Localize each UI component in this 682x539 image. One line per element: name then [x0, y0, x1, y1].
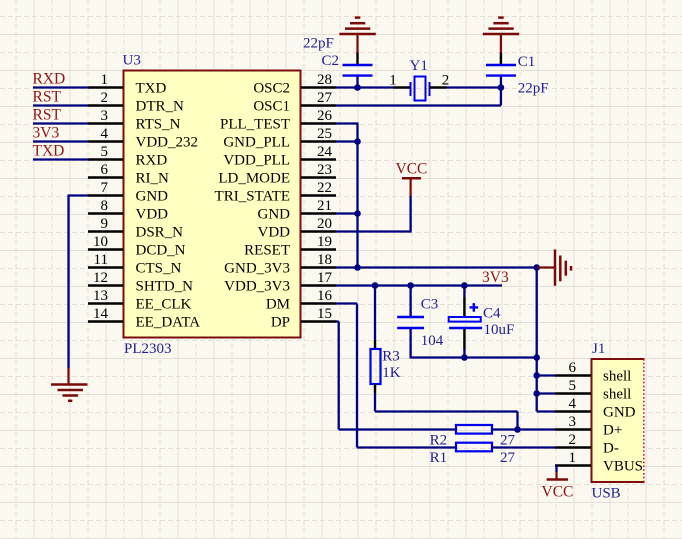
wire J1 pin5 nub: [537, 392, 555, 394]
wire pin18 GND_3V3: [336, 266, 537, 268]
wire net RST to pin 2: [33, 104, 88, 106]
svg-text:22: 22: [317, 180, 332, 196]
ground symbol top-right bars: [483, 33, 519, 36]
svg-text:27: 27: [317, 90, 333, 106]
U3 pin 3 stub: [88, 122, 123, 124]
svg-text:C4: C4: [483, 305, 501, 321]
U3 pin 17 stub: [301, 284, 336, 286]
U3 pin 9 stub: [88, 230, 123, 232]
J1 pin 6 stub: [555, 374, 591, 376]
wire pin21 nub: [336, 212, 358, 214]
wire C4 bottom stem: [463, 329, 465, 349]
wire pin16 DM route: [336, 302, 357, 304]
svg-text:SHTD_N: SHTD_N: [136, 278, 194, 294]
svg-text:J1: J1: [592, 341, 605, 357]
ground symbol bottom-left bars: [51, 383, 88, 386]
ground symbol bottom-left stem: [67, 368, 69, 385]
ground symbol right stem: [537, 266, 555, 268]
wire net TXD to pin 5: [33, 158, 88, 160]
ground symbol right bars: [554, 250, 557, 286]
wire crystal to C1: [447, 86, 501, 88]
U3 pin 6 stub: [88, 176, 123, 178]
svg-text:OSC2: OSC2: [253, 80, 290, 96]
node junction pin18/rail: [354, 264, 361, 271]
svg-text:RTS_N: RTS_N: [136, 116, 181, 132]
capacitor C1 plates: [486, 64, 516, 66]
U3 pin 16 stub: [301, 302, 336, 304]
svg-text:GND_PLL: GND_PLL: [223, 134, 290, 150]
svg-text:C3: C3: [421, 297, 439, 313]
svg-text:10uF: 10uF: [484, 322, 515, 338]
svg-text:19: 19: [317, 234, 332, 250]
svg-text:6: 6: [101, 162, 109, 178]
svg-text:8: 8: [101, 198, 109, 214]
IC U3 PL2303 body: [124, 71, 301, 338]
U3 pin 25 stub: [301, 140, 336, 142]
svg-text:RST: RST: [33, 107, 62, 124]
svg-text:22pF: 22pF: [303, 36, 334, 52]
U3 pin 15 stub: [301, 320, 336, 322]
svg-text:LD_MODE: LD_MODE: [218, 170, 290, 186]
node junction C4/rail: [461, 354, 468, 361]
svg-text:TXD: TXD: [33, 143, 65, 160]
crystal Y1 pin2 stub: [430, 86, 448, 88]
svg-text:26: 26: [317, 108, 333, 124]
wire C4 top stem: [463, 286, 465, 298]
node junction rail/x536: [533, 354, 540, 361]
svg-text:PL2303: PL2303: [124, 341, 172, 357]
svg-text:6: 6: [569, 360, 577, 376]
svg-text:EE_DATA: EE_DATA: [136, 314, 201, 330]
wire C2 to pin28 node: [356, 77, 358, 89]
U3 pin 11 stub: [88, 266, 123, 268]
resistor R3 bottom pin: [374, 384, 376, 393]
U3 pin 22 stub: [301, 194, 336, 196]
svg-text:VDD_3V3: VDD_3V3: [224, 278, 290, 294]
svg-text:14: 14: [93, 306, 109, 322]
U3 pin 12 stub: [88, 284, 123, 286]
svg-text:4: 4: [101, 126, 109, 142]
svg-text:13: 13: [93, 288, 108, 304]
svg-text:shell: shell: [603, 368, 631, 384]
capacitor C4 bottom plate: [449, 327, 482, 330]
svg-text:1: 1: [569, 450, 577, 466]
svg-text:VDD: VDD: [136, 206, 169, 222]
wire R1 to J1 pin2: [492, 446, 555, 448]
node junction C4 top: [461, 282, 468, 289]
wire rail vertical x357: [356, 124, 358, 268]
svg-text:GND_3V3: GND_3V3: [224, 260, 290, 276]
U3 pin 19 stub: [301, 248, 336, 250]
wire VCC to pin20: [409, 196, 411, 232]
svg-text:GND: GND: [258, 206, 291, 222]
U3 pin 28 stub: [301, 86, 336, 88]
svg-text:10: 10: [93, 234, 108, 250]
wire R3 top: [374, 286, 376, 341]
svg-text:R2: R2: [430, 433, 448, 449]
svg-text:5: 5: [569, 378, 577, 394]
resistor R1 body: [456, 443, 492, 452]
wire pin27 OSC1: [336, 104, 501, 106]
wire pin28 to crystal: [336, 86, 394, 88]
wire ground rail C3/C4: [409, 357, 411, 359]
U3 pin 7 stub: [88, 194, 123, 196]
ground symbol top-left stem: [356, 34, 358, 53]
wire net RXD to pin 1: [33, 86, 88, 88]
U3 pin 5 stub: [88, 158, 123, 160]
wire x536 vertical: [536, 268, 538, 412]
svg-text:22pF: 22pF: [518, 80, 549, 96]
wire pin7 horizontal: [69, 194, 89, 196]
svg-text:7: 7: [101, 180, 109, 196]
svg-text:104: 104: [421, 333, 444, 349]
node junction R3 top: [372, 282, 379, 289]
connector J1 body: [592, 359, 644, 482]
U3 pin 27 stub: [301, 104, 336, 106]
resistor R3 body: [371, 349, 381, 384]
power VCC top stem: [410, 178, 412, 196]
capacitor C1 top pin: [500, 52, 502, 64]
svg-text:TXD: TXD: [136, 80, 167, 96]
svg-text:3: 3: [569, 414, 577, 430]
J1 pin 5 stub: [555, 392, 591, 394]
svg-text:OSC1: OSC1: [253, 98, 290, 114]
wire pin25 nub: [336, 140, 358, 142]
wire J1 pin1 to VCC: [555, 466, 557, 473]
U3 pin 8 stub: [88, 212, 123, 214]
svg-text:RST: RST: [33, 89, 62, 106]
svg-text:23: 23: [317, 162, 332, 178]
U3 pin 10 stub: [88, 248, 123, 250]
resistor R2 body: [456, 425, 492, 434]
svg-text:4: 4: [569, 396, 577, 412]
svg-text:VCC: VCC: [542, 483, 574, 500]
node junction shell pin6: [533, 372, 540, 379]
svg-text:C1: C1: [518, 54, 536, 70]
node junction R3/D+: [514, 426, 521, 433]
U3 pin 14 stub: [88, 320, 123, 322]
svg-text:21: 21: [317, 198, 332, 214]
node junction pin18/x536: [533, 264, 540, 271]
svg-text:RESET: RESET: [244, 242, 290, 258]
wire C3 bottom stem: [409, 329, 411, 358]
svg-text:28: 28: [317, 72, 332, 88]
wire pin26 nub: [336, 122, 359, 124]
svg-text:RXD: RXD: [33, 71, 66, 88]
wire net 3V3 to pin 4: [33, 140, 88, 142]
svg-text:U3: U3: [123, 53, 141, 69]
svg-text:24: 24: [317, 144, 333, 160]
U3 pin 1 stub: [88, 86, 123, 88]
svg-text:DSR_N: DSR_N: [136, 224, 184, 240]
svg-text:EE_CLK: EE_CLK: [136, 296, 192, 312]
svg-text:20: 20: [317, 216, 332, 232]
wire J1 pin6 nub: [537, 374, 555, 376]
node junction C3 top: [407, 282, 414, 289]
capacitor C4 top plate: [449, 317, 481, 322]
svg-text:shell: shell: [603, 386, 631, 402]
crystal Y1 plates: [410, 82, 412, 96]
U3 pin 20 stub: [301, 230, 336, 232]
power VCC top bar: [402, 177, 421, 180]
svg-text:USB: USB: [592, 486, 621, 502]
svg-text:DP: DP: [271, 314, 290, 330]
svg-text:DCD_N: DCD_N: [136, 242, 186, 258]
power VCC bottom bar: [547, 478, 568, 481]
svg-text:5: 5: [101, 144, 109, 160]
U3 pin 13 stub: [88, 302, 123, 304]
svg-text:3V3: 3V3: [482, 269, 509, 286]
node junction C2/pin28: [354, 84, 361, 91]
U3 pin 18 stub: [301, 266, 336, 268]
crystal Y1 pin1 stub: [394, 86, 411, 88]
svg-text:D-: D-: [603, 440, 619, 456]
U3 pin 21 stub: [301, 212, 336, 214]
svg-text:1: 1: [101, 72, 109, 88]
svg-text:PLL_TEST: PLL_TEST: [220, 116, 290, 132]
ground symbol top-right stem: [500, 34, 502, 53]
wire J1 pin4 GND: [537, 410, 555, 412]
capacitor C4 plus sign: [470, 306, 479, 308]
wire R3 bottom route: [374, 393, 376, 412]
U3 pin 24 stub: [301, 158, 336, 160]
svg-text:Y1: Y1: [410, 58, 428, 74]
svg-text:R3: R3: [382, 349, 400, 365]
U3 pin 2 stub: [88, 104, 123, 106]
svg-text:25: 25: [317, 126, 332, 142]
svg-text:DM: DM: [266, 296, 290, 312]
capacitor C2 plates: [343, 64, 373, 66]
wire pin7 vertical to ground: [67, 195, 69, 369]
svg-text:11: 11: [94, 252, 108, 268]
svg-text:16: 16: [317, 288, 333, 304]
U3 pin 23 stub: [301, 176, 336, 178]
svg-text:VCC: VCC: [396, 161, 428, 178]
svg-text:2: 2: [101, 90, 109, 106]
node junction pin21: [354, 210, 361, 217]
svg-text:VDD_232: VDD_232: [136, 134, 199, 150]
U3 pin 26 stub: [301, 122, 336, 124]
crystal Y1 body: [415, 77, 426, 101]
wire net RST to pin 3: [33, 122, 88, 124]
power VCC bottom stem: [555, 472, 557, 480]
svg-text:27: 27: [500, 450, 516, 466]
svg-text:12: 12: [93, 270, 108, 286]
svg-text:VDD: VDD: [258, 224, 291, 240]
svg-text:2: 2: [442, 73, 450, 89]
J1 pin 3 stub: [555, 428, 591, 430]
svg-text:27: 27: [500, 433, 516, 449]
svg-text:3V3: 3V3: [33, 125, 60, 142]
svg-text:GND: GND: [603, 404, 636, 420]
wire pin15 DP route: [336, 320, 339, 322]
wire pin17 VDD_3V3 to 3V3: [336, 284, 502, 286]
svg-text:1K: 1K: [382, 365, 401, 381]
svg-text:C2: C2: [322, 53, 340, 69]
svg-text:9: 9: [101, 216, 109, 232]
svg-text:RXD: RXD: [136, 152, 168, 168]
wire R2 to J1 pin3: [492, 428, 555, 430]
wire C1 stem / OSC1 riser: [500, 77, 502, 106]
svg-text:DTR_N: DTR_N: [136, 98, 185, 114]
svg-text:D+: D+: [603, 422, 622, 438]
svg-text:VBUS: VBUS: [603, 458, 643, 474]
svg-text:17: 17: [317, 270, 333, 286]
svg-text:TRI_STATE: TRI_STATE: [215, 188, 290, 204]
J1 pin 4 stub: [555, 410, 591, 412]
capacitor C2 top pin: [356, 52, 358, 64]
node junction C1/crystal: [498, 84, 505, 91]
U3 pin 4 stub: [88, 140, 123, 142]
svg-text:RI_N: RI_N: [136, 170, 170, 186]
node junction shell pin5: [533, 390, 540, 397]
svg-text:R1: R1: [430, 450, 448, 466]
wire C3 top stem: [409, 286, 411, 317]
svg-text:2: 2: [569, 432, 577, 448]
svg-text:GND: GND: [136, 188, 169, 204]
J1 pin 1 stub: [555, 464, 591, 466]
capacitor C3 plates: [397, 316, 424, 318]
node junction pin25: [354, 138, 361, 145]
svg-text:3: 3: [101, 108, 109, 124]
ground symbol top-left bars: [339, 33, 375, 36]
svg-text:15: 15: [317, 306, 332, 322]
J1 pin 2 stub: [555, 446, 591, 448]
svg-text:VDD_PLL: VDD_PLL: [223, 152, 290, 168]
svg-text:CTS_N: CTS_N: [136, 260, 182, 276]
svg-text:18: 18: [317, 252, 332, 268]
svg-text:1: 1: [389, 73, 397, 89]
resistor R3 top pin: [374, 340, 376, 349]
